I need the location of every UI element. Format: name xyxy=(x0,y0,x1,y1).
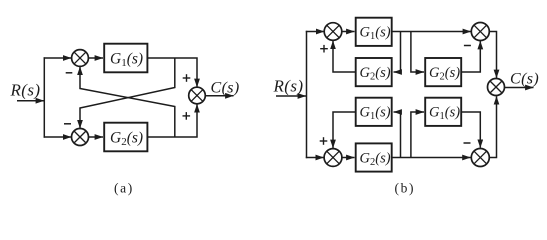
svg-text:G2(s): G2(s) xyxy=(360,150,391,168)
wire: trunk to summing junction J1 xyxy=(44,57,72,59)
wire: J2b output down into Jout (b) xyxy=(489,32,496,79)
wire: trunk to summing junction J1b xyxy=(306,31,324,33)
summing junction J2b (b top-right) xyxy=(471,23,489,41)
wire: J4b output up into Jout (b) xyxy=(489,96,496,157)
summing junction J1b (b top-left) xyxy=(324,23,342,41)
wire: J1b to block G1a xyxy=(342,31,355,33)
summing junction J1 (a) xyxy=(72,50,89,67)
wire: tap from G1 output down to cross (a) xyxy=(80,58,175,128)
block G2(s) (b top parallel) xyxy=(425,58,461,86)
block G1(s) (b top forward) xyxy=(356,18,392,46)
block G1(s) (b bottom parallel) xyxy=(425,98,461,126)
sign minus at J4b xyxy=(464,142,471,144)
wire: G1 output to output junction (a) xyxy=(148,58,197,87)
wire: tap A2 up into G1c1 right side xyxy=(394,112,401,158)
wire: J3b to block G2c xyxy=(342,157,355,159)
wire: R(s) input arrow (b) xyxy=(276,95,306,97)
wire: G1c1 output down into J3b xyxy=(333,112,356,148)
sign plus at J3b xyxy=(320,137,328,145)
svg-text:G1(s): G1(s) xyxy=(429,105,460,123)
svg-text:G2(s): G2(s) xyxy=(110,129,143,148)
wire: trunk to summing junction J2 xyxy=(44,136,72,138)
svg-text:G2(s): G2(s) xyxy=(429,65,460,83)
summing junction J2 (a) xyxy=(72,129,89,146)
svg-text:C(s): C(s) xyxy=(211,79,240,96)
block G1(s) (b bottom feedback) xyxy=(356,98,392,126)
output summing junction Jout (a) xyxy=(189,87,206,104)
wire: tap B down into G2b2 left side xyxy=(411,32,424,73)
wire: J2 to block G2 (a) xyxy=(89,136,104,138)
wire: input branch trunk (a) xyxy=(43,57,45,137)
sign minus at J1 xyxy=(66,72,73,74)
wire: input branch trunk (b) xyxy=(306,31,308,158)
sign minus at J2b xyxy=(464,45,471,47)
wire: G2 output to output junction (a) xyxy=(148,104,197,137)
wire: tap B2 up into G1c2 left side xyxy=(411,112,424,158)
block G2(s) (b bottom forward) xyxy=(356,143,392,171)
output summing junction Jout (b) xyxy=(488,79,505,96)
svg-text:(a): (a) xyxy=(114,181,134,196)
summing junction J4b (b bottom-right) xyxy=(471,149,489,167)
block G2(s) (a) xyxy=(104,123,147,152)
svg-text:G1(s): G1(s) xyxy=(110,50,143,69)
svg-text:C(s): C(s) xyxy=(510,71,539,88)
wire: trunk to summing junction J3b xyxy=(306,157,324,159)
sign minus at J2 xyxy=(64,123,71,125)
wire: tap from G2 output up to cross (a) xyxy=(80,67,175,137)
svg-text:G2(s): G2(s) xyxy=(360,65,391,83)
svg-text:R(s): R(s) xyxy=(273,76,304,95)
wire: J1 to block G1 (a) xyxy=(88,57,103,59)
block G2(s) (b top feedback) xyxy=(356,58,392,86)
sign plus lower at Jout (a) xyxy=(183,112,191,120)
wire: G2c output to junction J4b xyxy=(392,157,471,159)
wire: G1a output to junction J2b xyxy=(392,31,471,33)
svg-text:(b): (b) xyxy=(395,181,416,196)
wire: C(s) output arrow (b) xyxy=(505,87,534,89)
wire: tap A down into G2b1 right side xyxy=(394,32,401,73)
wire: R(s) input arrow (a) xyxy=(17,100,44,102)
svg-text:G1(s): G1(s) xyxy=(360,105,391,123)
sign plus upper at Jout (a) xyxy=(183,74,191,82)
summing junction J3b (b bottom-left) xyxy=(324,149,342,167)
wire: G1c2 output down into J4b xyxy=(461,112,480,148)
wire: G2b1 output up into J1b xyxy=(333,41,356,72)
block G1(s) (a) xyxy=(104,44,147,73)
svg-text:R(s): R(s) xyxy=(10,81,41,100)
sign plus at J1b xyxy=(320,45,328,53)
wire: G2b2 output up into J2b xyxy=(461,41,480,72)
wire: C(s) output arrow (a) xyxy=(205,95,233,97)
svg-text:G1(s): G1(s) xyxy=(360,25,391,43)
